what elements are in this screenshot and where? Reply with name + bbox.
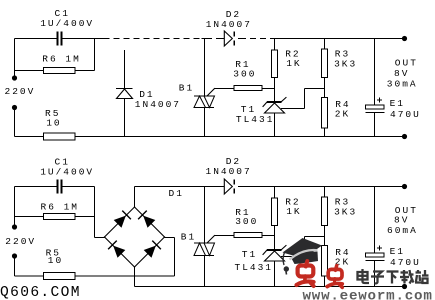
svg-text:30mA: 30mA bbox=[387, 78, 418, 89]
svg-text:470U: 470U bbox=[390, 257, 421, 268]
svg-text:1U/400V: 1U/400V bbox=[40, 18, 94, 29]
svg-text:1N4007: 1N4007 bbox=[206, 19, 252, 30]
svg-text:TL431: TL431 bbox=[235, 262, 274, 273]
svg-text:1K: 1K bbox=[286, 58, 301, 69]
svg-text:D1: D1 bbox=[169, 188, 184, 199]
svg-text:OUT: OUT bbox=[395, 57, 418, 68]
svg-text:R6 1M: R6 1M bbox=[42, 54, 81, 65]
svg-text:1N4007: 1N4007 bbox=[135, 99, 181, 110]
svg-text:60mA: 60mA bbox=[387, 225, 418, 236]
svg-text:8V: 8V bbox=[394, 215, 409, 226]
svg-text:E1: E1 bbox=[390, 98, 405, 109]
svg-text:300: 300 bbox=[233, 68, 256, 79]
svg-text:470U: 470U bbox=[390, 109, 421, 120]
svg-text:3K3: 3K3 bbox=[334, 207, 357, 218]
svg-text:TL431: TL431 bbox=[236, 114, 275, 125]
svg-text:300: 300 bbox=[235, 216, 258, 227]
svg-text:B1: B1 bbox=[179, 83, 194, 94]
svg-text:1K: 1K bbox=[286, 206, 301, 217]
svg-text:10: 10 bbox=[48, 255, 63, 266]
svg-text:10: 10 bbox=[46, 118, 61, 129]
svg-text:1U/400V: 1U/400V bbox=[40, 167, 94, 178]
svg-text:B1: B1 bbox=[181, 232, 196, 243]
svg-text:Q606.COM: Q606.COM bbox=[0, 285, 81, 300]
svg-text:T1: T1 bbox=[242, 249, 257, 260]
svg-text:R6 1M: R6 1M bbox=[41, 202, 80, 213]
svg-text:1N4007: 1N4007 bbox=[206, 166, 252, 177]
svg-text:2K: 2K bbox=[335, 108, 350, 119]
svg-text:8V: 8V bbox=[394, 68, 409, 79]
svg-text:220V: 220V bbox=[5, 86, 36, 97]
svg-text:E1: E1 bbox=[390, 246, 405, 257]
svg-text:220V: 220V bbox=[5, 236, 36, 247]
svg-text:3K3: 3K3 bbox=[334, 59, 357, 70]
svg-text:www.eeworm.com: www.eeworm.com bbox=[303, 288, 433, 300]
